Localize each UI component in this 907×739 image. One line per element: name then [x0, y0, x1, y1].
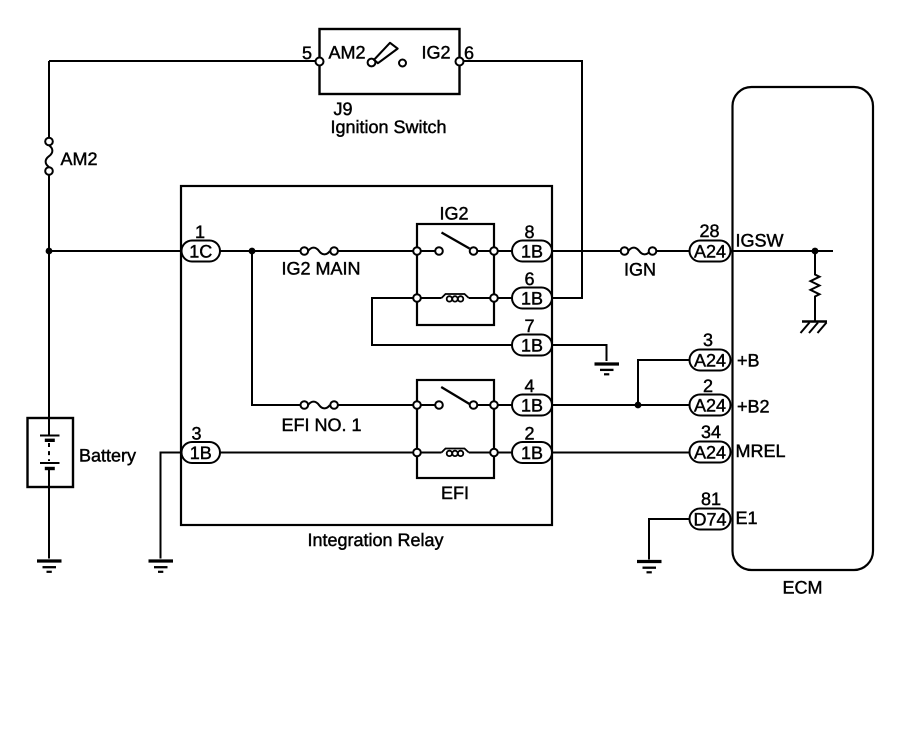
- svg-text:2: 2: [524, 424, 534, 444]
- svg-text:A24: A24: [694, 241, 726, 261]
- relay IG2 contact blade: [442, 233, 470, 249]
- svg-text:1B: 1B: [190, 443, 212, 463]
- svg-text:+B2: +B2: [737, 397, 770, 417]
- wire fuse EFI NO.1 to EFI relay contact: [338, 404, 436, 406]
- wire ECM pin E1 to ground: [649, 519, 690, 560]
- svg-text:Integration Relay: Integration Relay: [307, 530, 443, 550]
- ground battery: [37, 561, 62, 572]
- svg-text:6: 6: [524, 269, 534, 289]
- ground relay pin 7: [595, 364, 620, 374]
- relay IG2 contact circles: [413, 247, 498, 302]
- ECM pin IGSW oval A24: [690, 241, 731, 262]
- svg-text:EFI: EFI: [441, 483, 469, 503]
- switch lever: [374, 43, 398, 63]
- relay EFI terminals: [413, 401, 421, 409]
- wire IG2 coil to relay pin 7: [372, 298, 512, 345]
- relay EFI contact blade: [441, 387, 469, 404]
- svg-text:A24: A24: [694, 442, 726, 462]
- relay IG2 terminals: [413, 247, 421, 255]
- ignition switch J9 terminals and lever: [316, 43, 464, 67]
- terminal pin 6: [456, 58, 464, 66]
- svg-text:6: 6: [464, 43, 474, 63]
- wire fuse AM2 to battery plus plate: [48, 175, 50, 436]
- integration relay outer box: [181, 186, 552, 525]
- switch fixed contact: [399, 60, 406, 67]
- wire relay pin 2 to ECM pin MREL: [552, 452, 690, 454]
- junction dot IGSW resistor: [812, 248, 819, 255]
- junction dot relay pin1 branch: [249, 248, 256, 255]
- wire relay pin 3 to EFI coil: [220, 452, 442, 454]
- svg-text:1: 1: [195, 222, 205, 242]
- svg-text:81: 81: [701, 489, 721, 509]
- svg-text:EFI NO. 1: EFI NO. 1: [282, 415, 362, 435]
- relay EFI coil: [442, 449, 469, 457]
- svg-text:1B: 1B: [521, 335, 543, 355]
- wire battery feed vertical (node B+ to fuse AM2): [48, 61, 50, 138]
- connector pin 2 oval 1B: [512, 442, 552, 463]
- svg-text:2: 2: [703, 376, 713, 396]
- relay EFI contact circles: [413, 401, 498, 456]
- svg-text:1B: 1B: [521, 443, 543, 463]
- svg-text:Ignition Switch: Ignition Switch: [331, 117, 447, 137]
- wire EFI relay contact to relay pin 4: [477, 404, 512, 406]
- connector pin 3 oval 1B: [182, 442, 221, 463]
- svg-text:ECM: ECM: [783, 578, 823, 598]
- svg-text:1C: 1C: [189, 241, 212, 261]
- svg-text:+B: +B: [737, 351, 760, 371]
- svg-text:IG2: IG2: [439, 204, 468, 224]
- wire top from battery node to ignition switch pin 5: [49, 60, 320, 62]
- ignition switch J9 box: [320, 29, 460, 94]
- connector pin 8 oval 1B: [512, 241, 552, 262]
- chassis ground at resistor: [801, 322, 828, 334]
- ECM pin +B2 oval A24: [690, 395, 731, 416]
- svg-text:MREL: MREL: [736, 441, 786, 461]
- wire EFI coil to relay pin 2: [469, 452, 512, 454]
- junction dot +B/+B2 branch: [635, 402, 642, 409]
- wire ignition switch pin 6 down to relay pin 6: [460, 61, 583, 298]
- svg-text:E1: E1: [736, 508, 758, 528]
- wire node A junction down to fuse EFI NO.1: [252, 251, 301, 405]
- svg-text:AM2: AM2: [61, 149, 98, 169]
- fuse IG2 MAIN: [301, 247, 338, 255]
- svg-text:7: 7: [524, 316, 534, 336]
- svg-text:3: 3: [191, 424, 201, 444]
- svg-text:1B: 1B: [521, 288, 543, 308]
- svg-text:IG2 MAIN: IG2 MAIN: [282, 259, 361, 279]
- svg-text:AM2: AM2: [329, 43, 366, 63]
- connector pin 6 oval 1B: [512, 288, 552, 309]
- svg-text:D74: D74: [693, 509, 726, 529]
- wire relay pin 1 to fuse IG2 MAIN: [220, 250, 301, 252]
- svg-text:34: 34: [701, 422, 721, 442]
- svg-text:A24: A24: [694, 350, 726, 370]
- relay IG2 box: [417, 224, 494, 325]
- svg-text:IG2: IG2: [422, 43, 451, 63]
- ground relay pin 3: [149, 561, 174, 572]
- svg-text:Battery: Battery: [79, 446, 136, 466]
- svg-text:IGSW: IGSW: [736, 231, 784, 251]
- wire relay pin 4 to ECM pin +B2: [552, 404, 690, 406]
- wire IG2 relay contact to relay pin 8: [477, 250, 512, 252]
- relay IG2 coil: [442, 294, 469, 302]
- connector pin 4 oval 1B: [512, 395, 552, 416]
- wire battery minus to ground: [48, 468, 50, 559]
- svg-text:4: 4: [524, 376, 534, 396]
- svg-text:5: 5: [302, 43, 312, 63]
- wire IGSW internal stub: [731, 250, 834, 252]
- ground ECM E1: [637, 562, 662, 573]
- svg-text:28: 28: [699, 221, 719, 241]
- switch pivot contact: [368, 59, 376, 67]
- fuse AM2: [45, 138, 53, 175]
- battery box: [28, 418, 74, 487]
- fuse EFI NO.1: [301, 401, 338, 409]
- ECM pin +B oval A24: [690, 350, 731, 371]
- ECM box: [733, 87, 874, 570]
- svg-text:1B: 1B: [521, 395, 543, 415]
- battery cell symbol: [40, 436, 60, 469]
- wire IG2 coil left lead: [417, 297, 442, 299]
- wire IG2 coil right lead to relay pin 6: [469, 297, 512, 299]
- junction node A dot: [46, 248, 53, 255]
- svg-text:1B: 1B: [521, 241, 543, 261]
- relay EFI box: [417, 380, 494, 478]
- svg-text:A24: A24: [694, 395, 726, 415]
- wire junction to ECM pin +B: [638, 360, 690, 405]
- svg-text:3: 3: [703, 330, 713, 350]
- wire node A to relay pin 1: [49, 250, 182, 252]
- terminal pin 5: [316, 58, 324, 66]
- wire fuse IGN to ECM pin IGSW: [656, 250, 689, 252]
- wire fuse IG2 MAIN to IG2 relay contact: [338, 250, 436, 252]
- svg-text:IGN: IGN: [624, 260, 656, 280]
- fuse IGN: [621, 247, 657, 255]
- svg-text:8: 8: [524, 222, 534, 242]
- ECM pin MREL oval A24: [690, 442, 731, 463]
- ECM pin E1 oval D74: [690, 509, 731, 530]
- connector pin 1 oval 1C: [182, 241, 221, 262]
- resistor pull-down inside ECM: [811, 251, 820, 321]
- wire relay pin 8 to fuse IGN: [552, 250, 621, 252]
- wire relay pin 7 to ground: [552, 345, 607, 361]
- connector pin 7 oval 1B: [512, 335, 552, 356]
- wire relay pin 3 to ground: [161, 453, 182, 559]
